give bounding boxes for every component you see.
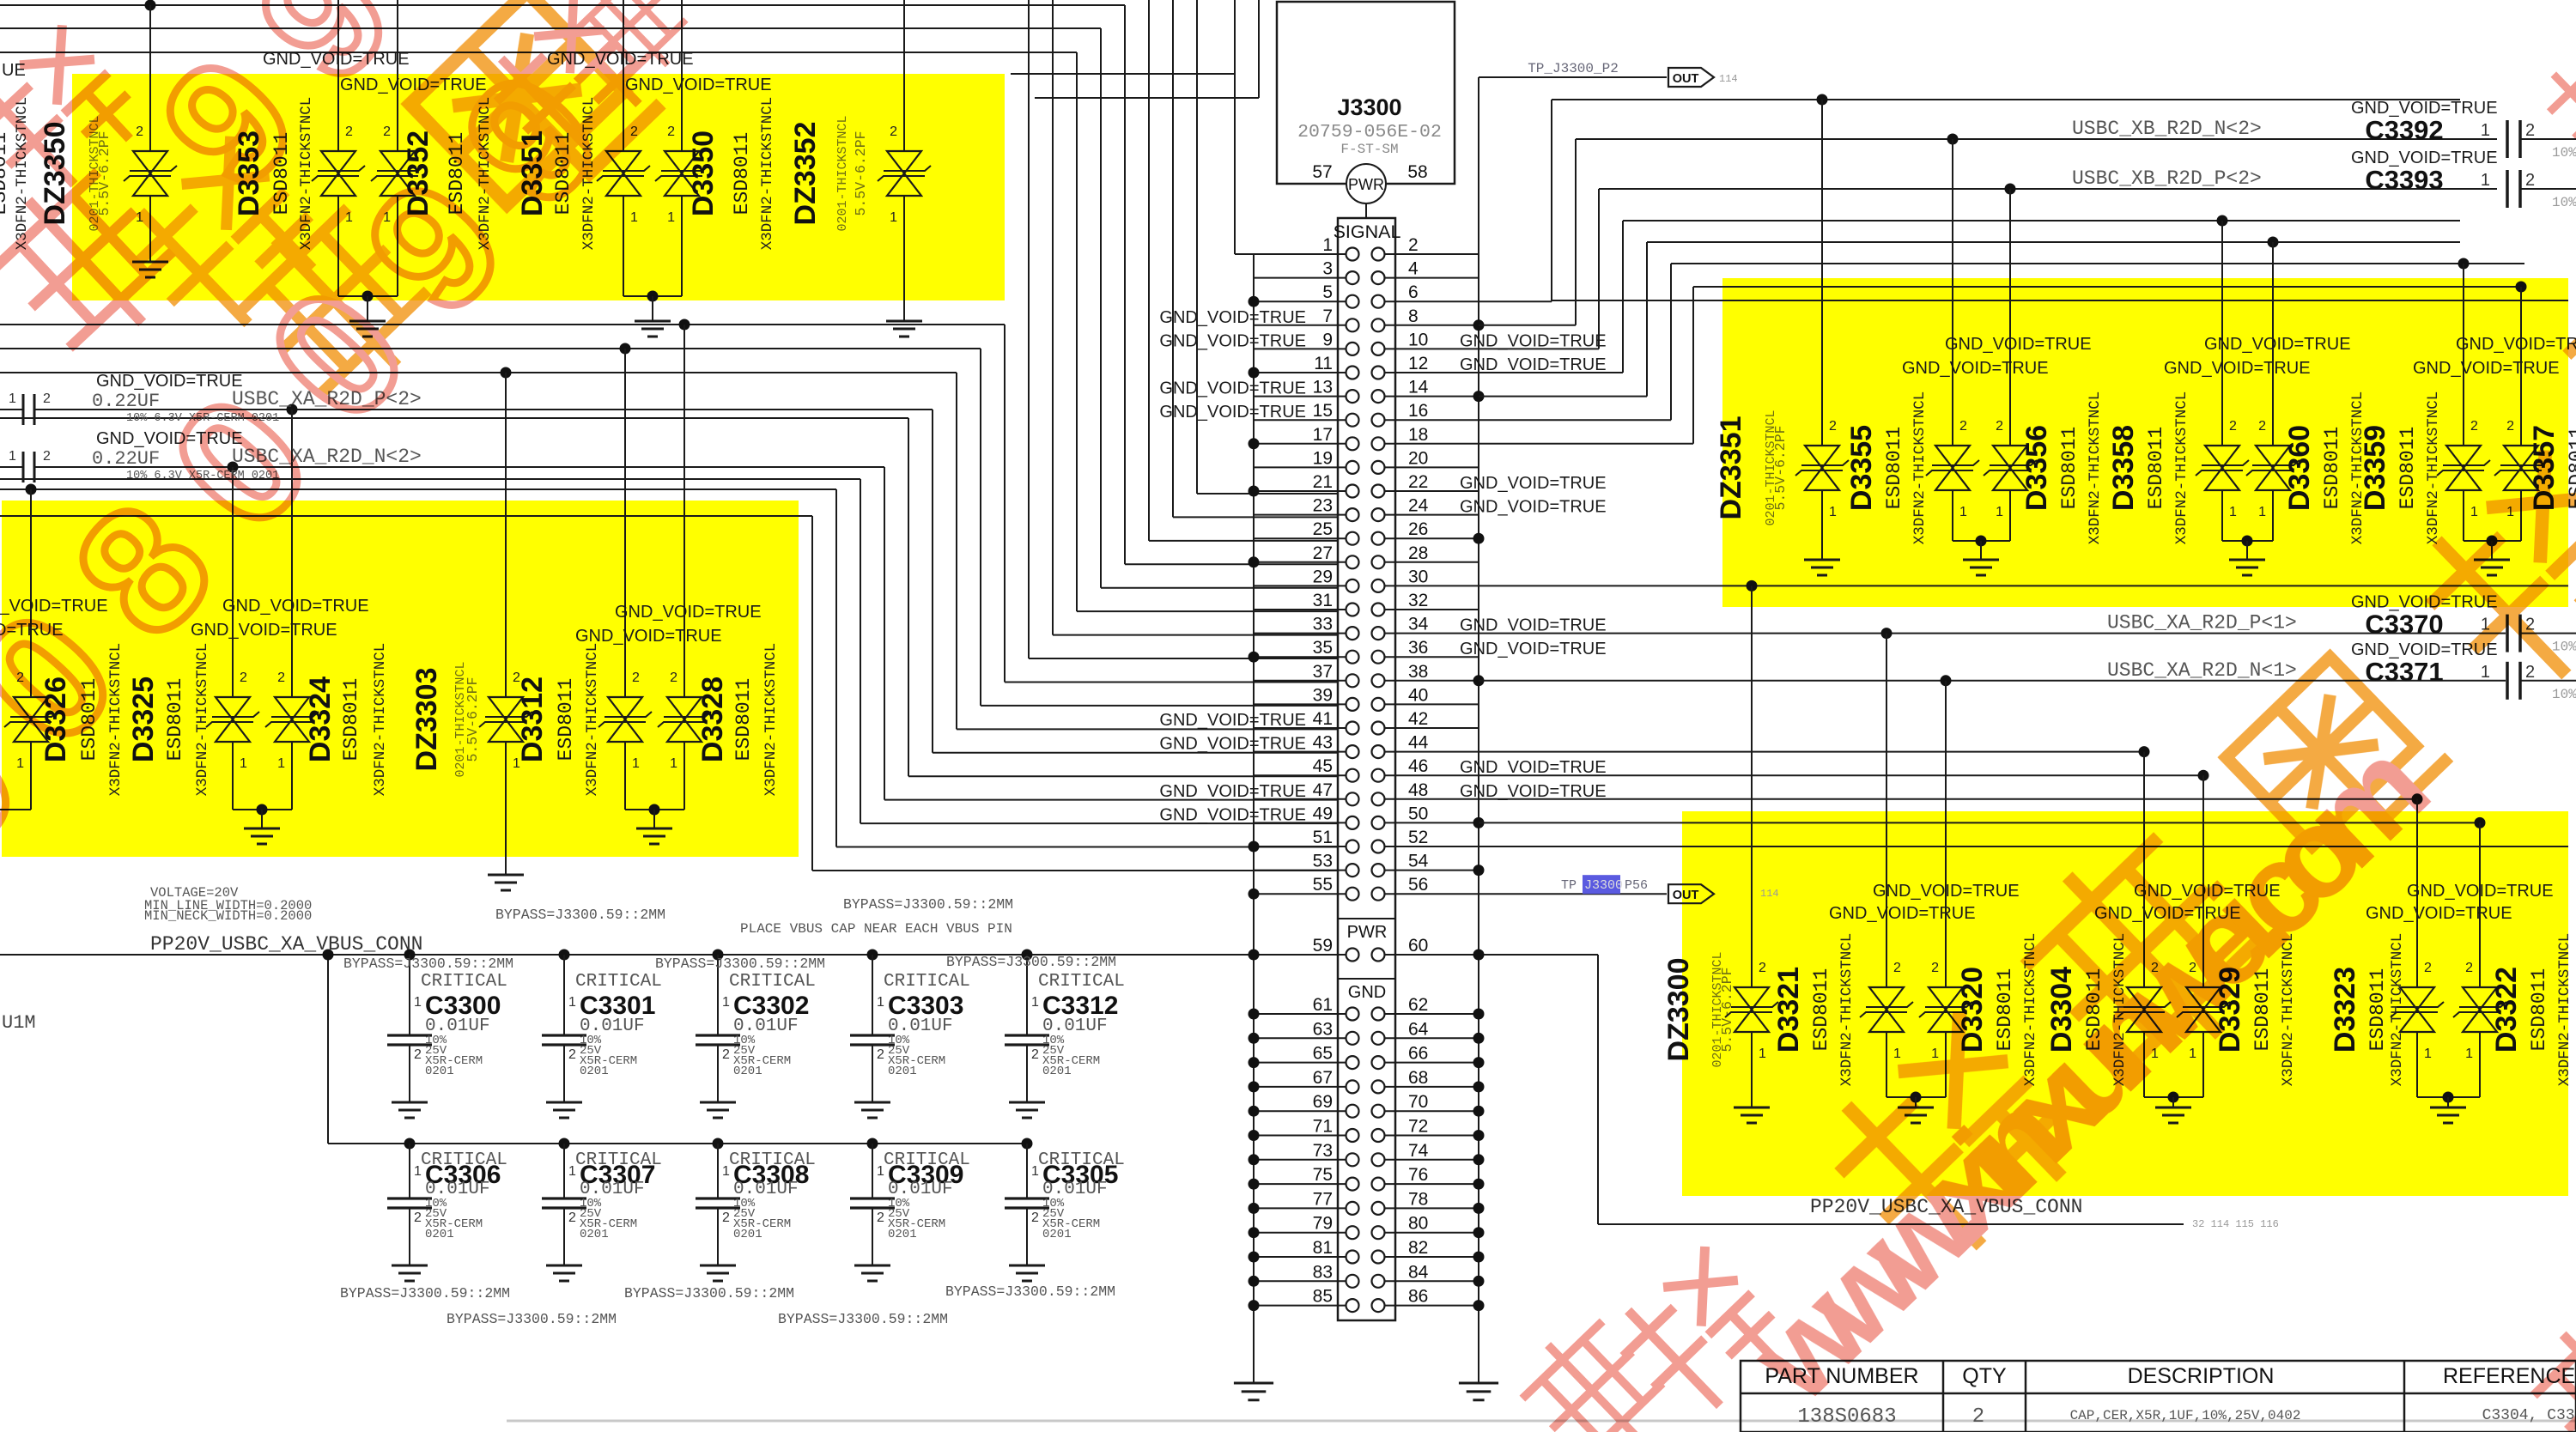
svg-text:GND_VOID=TRUE: GND_VOID=TRUE — [1460, 355, 1607, 374]
svg-text:14: 14 — [1408, 378, 1429, 397]
svg-text:10: 10 — [1408, 330, 1428, 349]
svg-text:CRITICAL: CRITICAL — [1038, 972, 1125, 992]
svg-text:2: 2 — [722, 1211, 730, 1225]
svg-text:17: 17 — [1313, 425, 1333, 445]
svg-text:114: 114 — [1719, 73, 1738, 85]
svg-text:USBC_XA_R2D_P<1>: USBC_XA_R2D_P<1> — [2107, 612, 2297, 634]
svg-text:BYPASS=J3300.59::2MM: BYPASS=J3300.59::2MM — [447, 1311, 617, 1327]
svg-text:54: 54 — [1408, 852, 1429, 871]
svg-text:GND_VOID=TRUE: GND_VOID=TRUE — [1829, 904, 1976, 923]
svg-text:X3DFN2-THICKSTNCL: X3DFN2-THICKSTNCL — [2087, 391, 2104, 545]
svg-text:GND_VOID=TRUE: GND_VOID=TRUE — [1159, 711, 1306, 730]
svg-text:1: 1 — [277, 756, 285, 771]
svg-text:2: 2 — [1959, 419, 1967, 434]
svg-text:1: 1 — [9, 449, 16, 464]
svg-text:J3300: J3300 — [1584, 878, 1623, 893]
svg-text:X3DFN2-THICKSTNCL: X3DFN2-THICKSTNCL — [1838, 933, 1856, 1087]
svg-text:10%: 10% — [2552, 195, 2576, 210]
svg-text:1: 1 — [1031, 1164, 1039, 1179]
svg-text:ESD8011: ESD8011 — [1994, 968, 2016, 1052]
svg-text:5.5V-6.2PF: 5.5V-6.2PF — [853, 130, 869, 215]
svg-text:1: 1 — [568, 995, 576, 1010]
svg-text:20759-056E-02: 20759-056E-02 — [1297, 122, 1442, 143]
svg-text:GND_VOID=TRUE: GND_VOID=TRUE — [1159, 379, 1306, 398]
svg-text:65: 65 — [1313, 1044, 1333, 1064]
svg-text:PWR: PWR — [1347, 923, 1388, 942]
svg-text:D3322: D3322 — [2490, 967, 2523, 1053]
svg-text:TP_J3300_P2: TP_J3300_P2 — [1528, 61, 1619, 76]
svg-text:28: 28 — [1408, 543, 1428, 563]
svg-text:GND_VOID=TRUE: GND_VOID=TRUE — [1460, 331, 1607, 350]
svg-text:62: 62 — [1408, 995, 1428, 1015]
svg-text:BYPASS=J3300.59::2MM: BYPASS=J3300.59::2MM — [343, 956, 513, 972]
svg-text:71: 71 — [1313, 1117, 1333, 1137]
svg-text:1: 1 — [1759, 1047, 1766, 1061]
svg-text:ESD8011: ESD8011 — [1883, 427, 1905, 510]
svg-text:DZ3352: DZ3352 — [789, 122, 822, 226]
svg-text:D3350: D3350 — [687, 130, 720, 216]
svg-text:23: 23 — [1313, 496, 1333, 516]
svg-text:DZ3303: DZ3303 — [410, 668, 443, 772]
svg-text:DZ3351: DZ3351 — [1715, 416, 1747, 520]
svg-text:2: 2 — [1031, 1211, 1039, 1225]
svg-text:GND_VOID=TRUE: GND_VOID=TRUE — [1460, 616, 1607, 635]
svg-text:2: 2 — [1408, 235, 1419, 255]
svg-text:44: 44 — [1408, 733, 1429, 753]
svg-text:BYPASS=J3300.59::2MM: BYPASS=J3300.59::2MM — [655, 956, 825, 972]
svg-text:GND_VOID=TRUE: GND_VOID=TRUE — [1902, 359, 2049, 378]
svg-text:GND_VOID=TRUE: GND_VOID=TRUE — [625, 76, 772, 94]
svg-text:2: 2 — [722, 1047, 730, 1062]
svg-text:1: 1 — [2229, 505, 2237, 519]
svg-text:D3328: D3328 — [696, 677, 729, 762]
svg-text:12: 12 — [1408, 354, 1428, 373]
svg-text:BYPASS=J3300.59::2MM: BYPASS=J3300.59::2MM — [340, 1285, 510, 1302]
svg-text:2: 2 — [877, 1047, 884, 1062]
svg-text:8: 8 — [1408, 306, 1419, 326]
svg-text:GND_VOID=TRUE: GND_VOID=TRUE — [2456, 335, 2576, 354]
svg-text:2: 2 — [2465, 961, 2473, 975]
svg-text:35: 35 — [1313, 638, 1333, 658]
svg-text:BYPASS=J3300.59::2MM: BYPASS=J3300.59::2MM — [945, 1283, 1115, 1300]
svg-text:2: 2 — [568, 1047, 576, 1062]
svg-text:C3371: C3371 — [2365, 657, 2443, 687]
svg-text:13: 13 — [1313, 378, 1333, 397]
svg-text:ESD8011: ESD8011 — [2366, 968, 2389, 1052]
svg-text:72: 72 — [1408, 1117, 1428, 1137]
svg-text:SIGNAL: SIGNAL — [1334, 221, 1401, 242]
svg-text:1: 1 — [1959, 505, 1967, 519]
svg-text:10%: 10% — [2552, 687, 2576, 702]
svg-text:2: 2 — [890, 124, 897, 139]
svg-text:81: 81 — [1313, 1238, 1333, 1258]
svg-text:18: 18 — [1408, 425, 1428, 445]
svg-text:42: 42 — [1408, 709, 1428, 729]
svg-text:PP20V_USBC_XA_VBUS_CONN: PP20V_USBC_XA_VBUS_CONN — [150, 933, 422, 956]
svg-text:2: 2 — [1931, 961, 1939, 975]
svg-text:34: 34 — [1408, 615, 1429, 634]
svg-text:X3DFN2-THICKSTNCL: X3DFN2-THICKSTNCL — [1911, 391, 1929, 545]
svg-text:DESCRIPTION: DESCRIPTION — [2128, 1364, 2275, 1388]
svg-text:40: 40 — [1408, 685, 1428, 705]
svg-text:83: 83 — [1313, 1262, 1333, 1282]
svg-text:1: 1 — [2481, 121, 2490, 140]
svg-text:BYPASS=J3300.59::2MM: BYPASS=J3300.59::2MM — [946, 954, 1116, 970]
svg-text:X3DFN2-THICKSTNCL: X3DFN2-THICKSTNCL — [372, 643, 389, 797]
svg-text:GND_VOID=TRUE: GND_VOID=TRUE — [1873, 882, 2020, 901]
svg-text:21: 21 — [1313, 472, 1333, 492]
svg-text:2: 2 — [2424, 961, 2432, 975]
svg-text:P56: P56 — [1625, 878, 1648, 893]
svg-text:2: 2 — [1893, 961, 1901, 975]
svg-text:47: 47 — [1313, 780, 1333, 800]
svg-text:20: 20 — [1408, 448, 1428, 468]
svg-text:2: 2 — [1829, 419, 1837, 434]
svg-text:1: 1 — [2465, 1047, 2473, 1061]
svg-text:GND_VOID=TRUE: GND_VOID=TRUE — [1460, 498, 1607, 517]
svg-text:1: 1 — [722, 1164, 730, 1179]
svg-text:ESD8011: ESD8011 — [0, 132, 11, 215]
svg-text:BYPASS=J3300.59::2MM: BYPASS=J3300.59::2MM — [624, 1285, 794, 1302]
svg-text:3: 3 — [1322, 259, 1333, 279]
svg-text:D3324: D3324 — [304, 677, 337, 762]
svg-text:2: 2 — [414, 1047, 422, 1062]
svg-text:X3DFN2-THICKSTNCL: X3DFN2-THICKSTNCL — [762, 643, 780, 797]
svg-text:GND_VOID=TRUE: GND_VOID=TRUE — [1159, 403, 1306, 422]
svg-text:GND_VOID=TRUE: GND_VOID=TRUE — [2164, 359, 2311, 378]
svg-text:1: 1 — [667, 210, 675, 225]
svg-text:CRITICAL: CRITICAL — [421, 972, 507, 992]
svg-text:X3DFN2-THICKSTNCL: X3DFN2-THICKSTNCL — [759, 97, 776, 251]
svg-text:X3DFN2-THICKSTNCL: X3DFN2-THICKSTNCL — [2389, 933, 2406, 1087]
svg-text:22: 22 — [1408, 472, 1428, 492]
svg-text:0201: 0201 — [888, 1065, 917, 1078]
svg-text:78: 78 — [1408, 1189, 1428, 1209]
svg-text:GND_VOID=TRUE: GND_VOID=TRUE — [575, 627, 722, 646]
svg-text:70: 70 — [1408, 1092, 1428, 1112]
svg-text:ESD8011: ESD8011 — [1810, 968, 1832, 1052]
svg-text:GND_VOID=TRUE: GND_VOID=TRUE — [1159, 308, 1306, 327]
svg-text:1: 1 — [2481, 171, 2490, 190]
svg-text:GND_VOID=TRUE: GND_VOID=TRUE — [2407, 882, 2554, 901]
svg-text:5.5V-6.2PF: 5.5V-6.2PF — [1772, 425, 1789, 510]
svg-text:2: 2 — [2258, 419, 2266, 434]
svg-text:1: 1 — [2470, 505, 2478, 519]
svg-text:26: 26 — [1408, 519, 1428, 539]
svg-text:76: 76 — [1408, 1165, 1428, 1185]
svg-text:55: 55 — [1313, 875, 1333, 895]
svg-text:30: 30 — [1408, 567, 1428, 586]
svg-text:25: 25 — [1313, 519, 1333, 539]
svg-text:56: 56 — [1408, 875, 1428, 895]
svg-text:15: 15 — [1313, 401, 1333, 421]
svg-text:2: 2 — [1759, 961, 1766, 975]
svg-text:2: 2 — [2525, 663, 2535, 682]
svg-text:GND_VOID=TRUE: GND_VOID=TRUE — [2204, 335, 2351, 354]
svg-text:OUT: OUT — [1673, 889, 1699, 902]
svg-text:BYPASS=J3300.59::2MM: BYPASS=J3300.59::2MM — [778, 1311, 948, 1327]
svg-text:GND_VOID=TRUE: GND_VOID=TRUE — [1460, 640, 1607, 658]
svg-text:2: 2 — [277, 670, 285, 685]
svg-text:OUT: OUT — [1673, 72, 1699, 86]
svg-text:ESD8011: ESD8011 — [2058, 427, 2081, 510]
svg-text:1: 1 — [2258, 505, 2266, 519]
svg-text:GND_VOID=TRUE: GND_VOID=TRUE — [1945, 335, 2092, 354]
svg-text:66: 66 — [1408, 1044, 1428, 1064]
svg-text:0201: 0201 — [733, 1228, 762, 1241]
svg-text:2: 2 — [1996, 419, 2003, 434]
svg-text:1: 1 — [9, 391, 16, 406]
svg-text:D3323: D3323 — [2329, 967, 2361, 1053]
svg-text:46: 46 — [1408, 756, 1428, 776]
svg-text:GND: GND — [1348, 983, 1386, 1002]
svg-text:41: 41 — [1313, 709, 1333, 729]
svg-text:GND_VOID=TRUE: GND_VOID=TRUE — [1460, 782, 1607, 801]
svg-text:1: 1 — [414, 1164, 422, 1179]
svg-text:1: 1 — [568, 1164, 576, 1179]
svg-text:16: 16 — [1408, 401, 1428, 421]
svg-text:D3360: D3360 — [2283, 425, 2316, 511]
svg-text:60: 60 — [1408, 936, 1428, 956]
svg-text:GND_VOID=TRUE: GND_VOID=TRUE — [1159, 782, 1306, 801]
svg-text:61: 61 — [1313, 995, 1333, 1015]
svg-text:0201-THICKSTNCL: 0201-THICKSTNCL — [835, 115, 850, 231]
svg-text:J3300: J3300 — [1337, 94, 1401, 120]
svg-text:0201: 0201 — [888, 1228, 917, 1241]
svg-text:ESD8011: ESD8011 — [2528, 968, 2550, 1052]
svg-text:ESD8011: ESD8011 — [555, 678, 577, 762]
svg-text:2: 2 — [43, 391, 51, 406]
svg-text:37: 37 — [1313, 662, 1333, 682]
svg-text:27: 27 — [1313, 543, 1333, 563]
svg-text:X3DFN2-THICKSTNCL: X3DFN2-THICKSTNCL — [584, 643, 601, 797]
svg-text:ESD8011: ESD8011 — [2145, 427, 2167, 510]
svg-text:D3355: D3355 — [1845, 425, 1878, 511]
svg-text:C3370: C3370 — [2365, 610, 2443, 640]
svg-text:80: 80 — [1408, 1214, 1428, 1234]
svg-text:1: 1 — [1893, 1047, 1901, 1061]
svg-text:CAP,CER,X5R,1UF,10%,25V,0402: CAP,CER,X5R,1UF,10%,25V,0402 — [2070, 1408, 2301, 1423]
svg-text:32 114 115 116: 32 114 115 116 — [2192, 1218, 2279, 1230]
svg-text:C3393: C3393 — [2365, 165, 2443, 195]
svg-text:68: 68 — [1408, 1068, 1428, 1088]
svg-text:1: 1 — [1031, 995, 1039, 1010]
svg-text:GND_VOID=TRUE: GND_VOID=TRUE — [615, 603, 762, 622]
svg-text:0201: 0201 — [580, 1065, 609, 1078]
svg-text:CRITICAL: CRITICAL — [575, 972, 662, 992]
svg-text:D3358: D3358 — [2107, 425, 2140, 511]
svg-text:PLACE VBUS CAP NEAR EACH VBUS: PLACE VBUS CAP NEAR EACH VBUS PIN — [740, 921, 1012, 937]
svg-text:24: 24 — [1408, 496, 1429, 516]
svg-text:10%: 10% — [2552, 145, 2576, 161]
svg-text:1: 1 — [670, 756, 677, 771]
svg-text:29: 29 — [1313, 567, 1333, 586]
svg-text:CRITICAL: CRITICAL — [729, 972, 816, 992]
svg-text:45: 45 — [1313, 756, 1333, 776]
svg-text:64: 64 — [1408, 1019, 1429, 1039]
svg-text:39: 39 — [1313, 685, 1333, 705]
svg-text:2: 2 — [1972, 1405, 1984, 1429]
svg-text:GND_VOID=TRUE: GND_VOID=TRUE — [1159, 331, 1306, 350]
svg-text:4: 4 — [1408, 259, 1419, 279]
svg-text:PWR: PWR — [1348, 176, 1384, 193]
svg-text:1: 1 — [2424, 1047, 2432, 1061]
svg-text:D3359: D3359 — [2359, 425, 2391, 511]
svg-text:2: 2 — [2506, 419, 2514, 434]
svg-text:ESD8011: ESD8011 — [2321, 427, 2343, 510]
svg-text:114: 114 — [1760, 888, 1779, 900]
svg-text:10%: 10% — [2552, 640, 2576, 655]
svg-text:2: 2 — [2229, 419, 2237, 434]
svg-text:86: 86 — [1408, 1287, 1428, 1307]
svg-text:1: 1 — [890, 210, 897, 225]
svg-text:2: 2 — [2470, 419, 2478, 434]
svg-text:57: 57 — [1312, 162, 1332, 182]
svg-text:33: 33 — [1313, 615, 1333, 634]
svg-text:32: 32 — [1408, 591, 1428, 610]
svg-text:0201: 0201 — [1042, 1065, 1072, 1078]
svg-text:74: 74 — [1408, 1141, 1429, 1161]
svg-text:BYPASS=J3300.59::2MM: BYPASS=J3300.59::2MM — [843, 896, 1013, 913]
svg-text:51: 51 — [1313, 828, 1333, 847]
svg-text:77: 77 — [1313, 1189, 1333, 1209]
svg-text:2: 2 — [2525, 121, 2535, 140]
svg-text:36: 36 — [1408, 638, 1428, 658]
svg-text:GND_VOID=TRUE: GND_VOID=TRUE — [1460, 758, 1607, 777]
svg-text:BYPASS=J3300.59::2MM: BYPASS=J3300.59::2MM — [495, 907, 665, 923]
svg-text:5.5V-6.2PF: 5.5V-6.2PF — [1719, 967, 1735, 1052]
svg-text:43: 43 — [1313, 733, 1333, 753]
svg-text:C3392: C3392 — [2365, 115, 2443, 145]
svg-text:1: 1 — [1931, 1047, 1939, 1061]
svg-text:1: 1 — [2481, 663, 2490, 682]
svg-text:2: 2 — [240, 670, 247, 685]
svg-text:52: 52 — [1408, 828, 1428, 847]
svg-text:X3DFN2-THICKSTNCL: X3DFN2-THICKSTNCL — [2173, 391, 2190, 545]
svg-text:31: 31 — [1313, 591, 1333, 610]
svg-text:CRITICAL: CRITICAL — [884, 972, 970, 992]
svg-text:GND_VOID=TRUE: GND_VOID=TRUE — [2413, 359, 2560, 378]
svg-text:2: 2 — [43, 449, 51, 464]
svg-text:2: 2 — [136, 124, 143, 139]
svg-text:84: 84 — [1408, 1262, 1429, 1282]
svg-text:48: 48 — [1408, 780, 1428, 800]
svg-text:1: 1 — [632, 756, 640, 771]
svg-text:U1M: U1M — [2, 1012, 36, 1034]
svg-text:1: 1 — [240, 756, 247, 771]
svg-text:X3DFN2-THICKSTNCL: X3DFN2-THICKSTNCL — [2556, 933, 2573, 1087]
svg-text:2: 2 — [670, 670, 677, 685]
svg-text:5: 5 — [1322, 282, 1333, 302]
svg-text:0201: 0201 — [425, 1065, 454, 1078]
svg-text:67: 67 — [1313, 1068, 1333, 1088]
svg-text:1: 1 — [414, 995, 422, 1010]
svg-text:59: 59 — [1313, 936, 1333, 956]
svg-text:C3304, C335: C3304, C335 — [2482, 1407, 2576, 1424]
svg-text:2: 2 — [2525, 171, 2535, 190]
svg-text:2: 2 — [877, 1211, 884, 1225]
svg-text:X3DFN2-THICKSTNCL: X3DFN2-THICKSTNCL — [194, 643, 211, 797]
svg-text:79: 79 — [1313, 1214, 1333, 1234]
svg-text:58: 58 — [1407, 162, 1427, 182]
svg-text:9: 9 — [1322, 330, 1333, 349]
svg-text:1: 1 — [630, 210, 638, 225]
svg-text:1: 1 — [1996, 505, 2003, 519]
svg-text:GND_VOID=TRUE: GND_VOID=TRUE — [2366, 904, 2512, 923]
svg-text:38: 38 — [1408, 662, 1428, 682]
svg-text:63: 63 — [1313, 1019, 1333, 1039]
svg-text:D3321: D3321 — [1772, 967, 1805, 1053]
svg-text:ESD8011: ESD8011 — [340, 678, 362, 762]
svg-text:D3356: D3356 — [2020, 425, 2053, 511]
svg-text:X3DFN2-THICKSTNCL: X3DFN2-THICKSTNCL — [2425, 391, 2442, 545]
svg-text:DZ3300: DZ3300 — [1662, 958, 1695, 1062]
svg-text:0201: 0201 — [733, 1065, 762, 1078]
svg-text:GND_VOID=TRUE: GND_VOID=TRUE — [1460, 474, 1607, 493]
svg-text:82: 82 — [1408, 1238, 1428, 1258]
svg-text:75: 75 — [1313, 1165, 1333, 1185]
svg-text:0201: 0201 — [1042, 1228, 1072, 1241]
svg-text:19: 19 — [1313, 448, 1333, 468]
svg-text:ESD8011: ESD8011 — [732, 678, 755, 762]
svg-text:6: 6 — [1408, 282, 1419, 302]
svg-text:QTY: QTY — [1962, 1364, 2007, 1388]
svg-text:1: 1 — [877, 995, 884, 1010]
svg-text:GND_VOID=TRUE: GND_VOID=TRUE — [1159, 735, 1306, 754]
svg-text:USBC_XB_R2D_P<2>: USBC_XB_R2D_P<2> — [2072, 167, 2262, 190]
svg-text:D3312: D3312 — [516, 677, 549, 762]
svg-text:11: 11 — [1314, 354, 1333, 373]
svg-text:2: 2 — [414, 1211, 422, 1225]
svg-text:49: 49 — [1313, 804, 1333, 823]
svg-text:1: 1 — [1322, 235, 1333, 255]
svg-text:0.22UF: 0.22UF — [92, 391, 160, 412]
svg-text:1: 1 — [722, 995, 730, 1010]
svg-text:1: 1 — [877, 1164, 884, 1179]
svg-text:USBC_XB_R2D_N<2>: USBC_XB_R2D_N<2> — [2072, 118, 2262, 140]
svg-text:73: 73 — [1313, 1141, 1333, 1161]
svg-text:USBC_XA_R2D_N<1>: USBC_XA_R2D_N<1> — [2107, 659, 2297, 682]
svg-text:0201: 0201 — [425, 1228, 454, 1241]
svg-text:5.5V-6.2PF: 5.5V-6.2PF — [465, 677, 481, 762]
svg-text:2: 2 — [383, 124, 391, 139]
svg-text:2: 2 — [568, 1211, 576, 1225]
svg-text:TP: TP — [1561, 878, 1577, 893]
svg-text:7: 7 — [1322, 306, 1333, 326]
svg-text:2: 2 — [1031, 1047, 1039, 1062]
svg-text:ESD8011: ESD8011 — [731, 132, 753, 215]
svg-text:2: 2 — [632, 670, 640, 685]
svg-text:85: 85 — [1313, 1287, 1333, 1307]
svg-text:ESD8011: ESD8011 — [2397, 427, 2419, 510]
svg-text:69: 69 — [1313, 1092, 1333, 1112]
svg-text:2: 2 — [667, 124, 675, 139]
svg-text:50: 50 — [1408, 804, 1428, 823]
svg-text:53: 53 — [1313, 852, 1333, 871]
svg-text:MIN_NECK_WIDTH=0.2000: MIN_NECK_WIDTH=0.2000 — [144, 908, 312, 924]
svg-text:0201: 0201 — [580, 1228, 609, 1241]
svg-text:1: 1 — [1829, 505, 1837, 519]
svg-text:GND_VOID=TRUE: GND_VOID=TRUE — [1159, 805, 1306, 824]
svg-text:F-ST-SM: F-ST-SM — [1340, 142, 1398, 157]
